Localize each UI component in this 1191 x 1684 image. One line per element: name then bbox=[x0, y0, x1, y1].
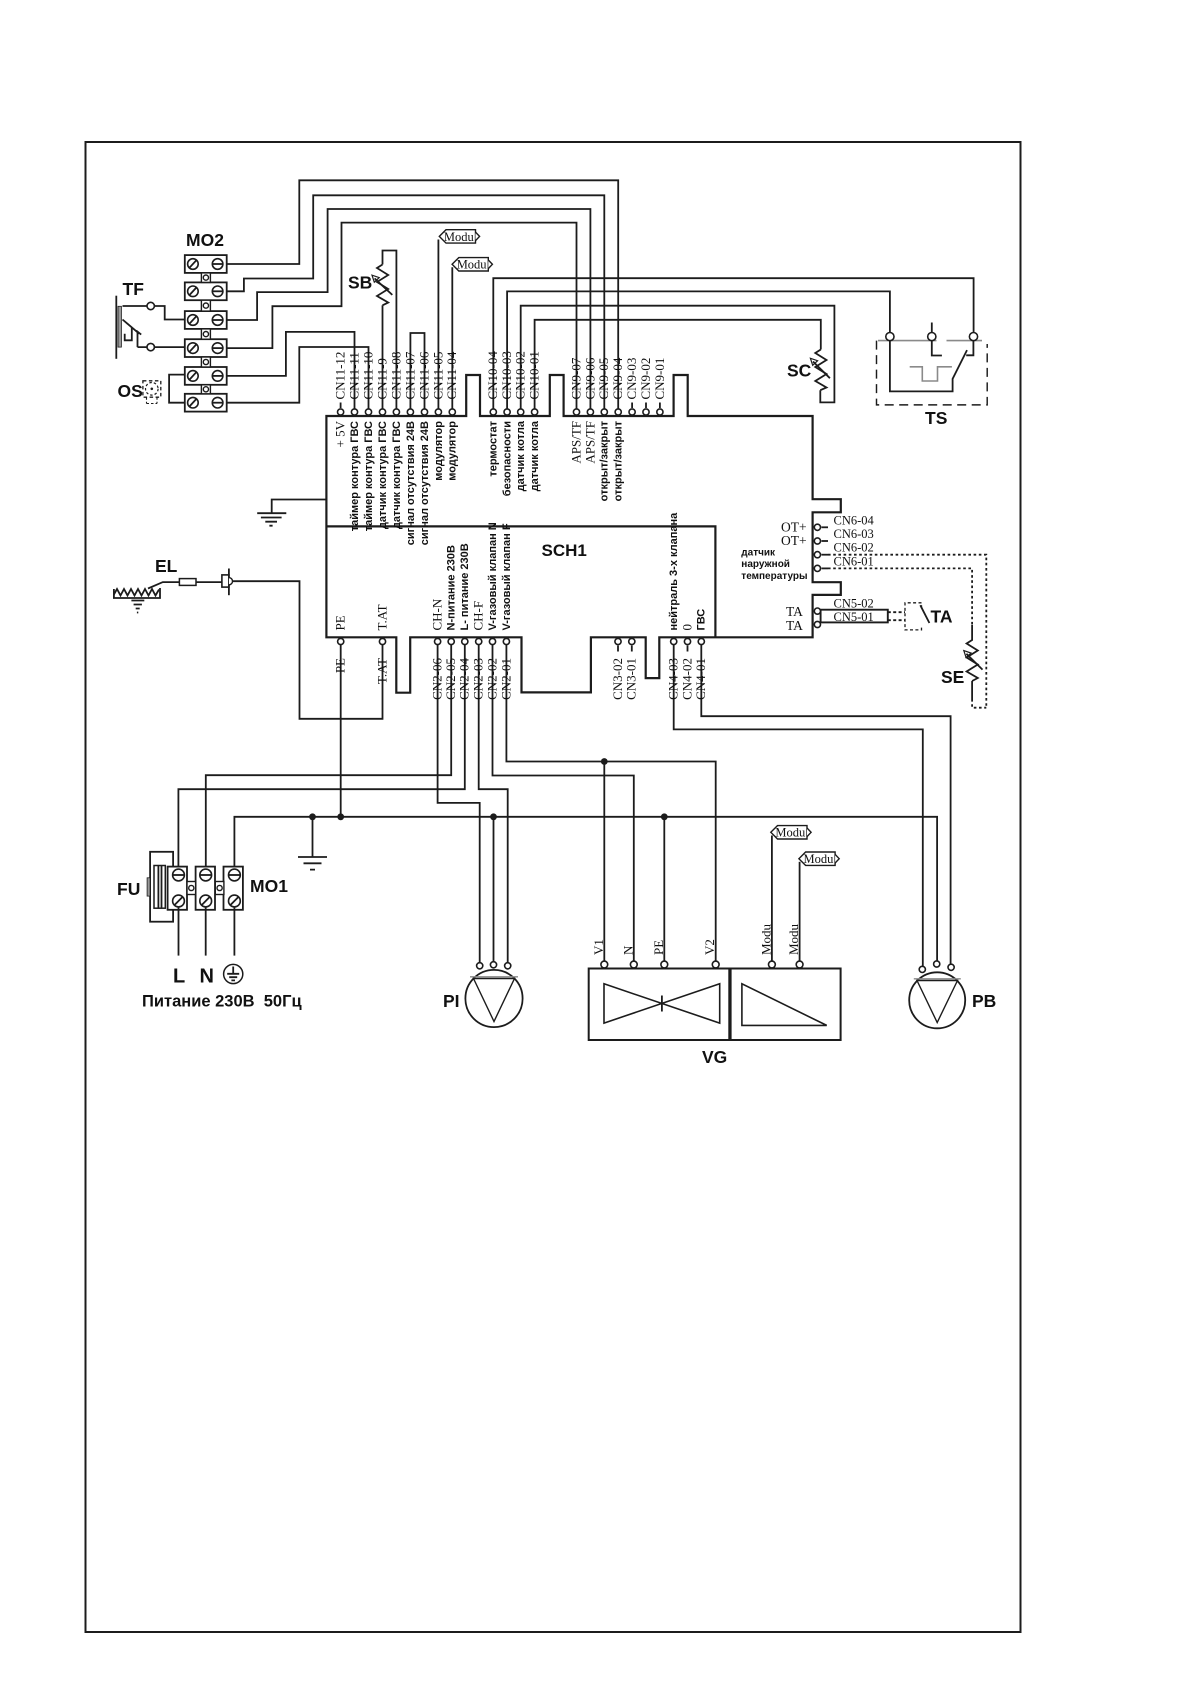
link MO1 1-2 bbox=[187, 882, 196, 895]
wire PE net (MO1 to PB) bbox=[234, 817, 937, 961]
pin CN3-01 (bottom) bbox=[629, 638, 635, 644]
svg-text:PE: PE bbox=[651, 940, 666, 955]
pin CN11-10 bbox=[365, 409, 371, 415]
wire L (CN2-04 to FU) bbox=[178, 645, 464, 869]
svg-text:CN3-01: CN3-01 bbox=[624, 658, 639, 700]
svg-text:TF: TF bbox=[123, 279, 145, 299]
svg-text:APS/TF: APS/TF bbox=[582, 421, 597, 464]
border frame (page) bbox=[86, 142, 1021, 1632]
svg-text:наружной: наружной bbox=[741, 559, 790, 570]
flag Modu 4 bbox=[799, 852, 835, 865]
pin CN6-01 bbox=[814, 565, 820, 571]
wire V-valve F (CN2-01 to VG V1/V2) bbox=[506, 645, 715, 963]
svg-text:Modu: Modu bbox=[758, 923, 773, 955]
svg-text:TS: TS bbox=[925, 408, 947, 428]
svg-text:PE: PE bbox=[333, 658, 348, 673]
svg-text:MO2: MO2 bbox=[186, 230, 224, 250]
svg-text:CN5-02: CN5-02 bbox=[834, 597, 874, 611]
wire PE to VG PE bbox=[663, 817, 665, 963]
wire VG V1 branch bbox=[603, 762, 605, 963]
svg-text:CN11-12: CN11-12 bbox=[333, 352, 348, 400]
terminal MO1-1 bbox=[168, 867, 187, 910]
pin CN2-05 (bottom) bbox=[448, 638, 454, 644]
pin CN10-04 bbox=[490, 409, 496, 415]
potentiometer SE arrow bbox=[966, 654, 982, 670]
svg-text:датчик котла: датчик котла bbox=[529, 420, 541, 491]
pin CN11-11 bbox=[351, 409, 357, 415]
svg-text:N: N bbox=[200, 966, 214, 988]
svg-text:CN2-03: CN2-03 bbox=[471, 658, 486, 700]
wire CN6-02 dotted to SE bbox=[828, 555, 986, 708]
wire CH-F (CN2-03 to PI right) bbox=[479, 645, 508, 963]
wire MO2-1 to CN9-04 bbox=[227, 180, 619, 409]
pin CN11-12 bbox=[340, 403, 342, 409]
pin CN4-02 (bottom) bbox=[684, 638, 690, 644]
svg-text:открыт/закрыт: открыт/закрыт bbox=[613, 420, 625, 501]
wire MO1-3 down (PE) bbox=[233, 907, 235, 956]
pin CN5-01 (TA) bbox=[814, 621, 820, 627]
contact TS middle bbox=[928, 333, 936, 341]
terminal MO2-6 bbox=[185, 394, 227, 412]
svg-text:FU: FU bbox=[117, 879, 140, 899]
wire CN4-01 to PB right bbox=[701, 645, 950, 964]
svg-text:TA: TA bbox=[931, 607, 953, 627]
board SCH1 outline bbox=[326, 375, 840, 693]
svg-text:TA: TA bbox=[786, 618, 803, 633]
svg-text:CN11-04: CN11-04 bbox=[444, 351, 459, 399]
svg-text:CN11-10: CN11-10 bbox=[360, 352, 375, 400]
svg-text:CN5-01: CN5-01 bbox=[834, 610, 874, 624]
svg-text:Питание 230В 50Гц: Питание 230В 50Гц bbox=[142, 993, 302, 1011]
valve VG left box bbox=[589, 969, 730, 1041]
svg-text:CN6-02: CN6-02 bbox=[834, 541, 874, 555]
svg-text:CH-F: CH-F bbox=[471, 601, 486, 631]
pin CN9-02 bbox=[645, 403, 647, 409]
contact TF lower bbox=[147, 343, 154, 350]
wire MO1-1 down (L) bbox=[178, 907, 180, 956]
node V1 junction bbox=[601, 758, 608, 765]
pin CN11-04 bbox=[449, 409, 455, 415]
svg-text:CH-N: CH-N bbox=[430, 598, 445, 630]
svg-text:SCH1: SCH1 bbox=[542, 541, 587, 560]
flag Modu 2 (CN11-04) bbox=[452, 258, 488, 271]
ground (EL plate) bbox=[131, 601, 144, 613]
switch TS enclosure (dashed) bbox=[878, 340, 982, 342]
wire EL to T.AT pin bbox=[233, 581, 383, 719]
fuse FU bbox=[150, 852, 173, 922]
svg-text:VG: VG bbox=[702, 1047, 727, 1067]
svg-text:Modu: Modu bbox=[457, 258, 488, 272]
node PE-board junction bbox=[337, 813, 344, 820]
svg-text:V-газовый клапан F: V-газовый клапан F bbox=[501, 523, 513, 630]
wire Modu flag 1 to CN11-05 bbox=[437, 240, 439, 410]
ground (mains PE) bbox=[298, 857, 327, 870]
svg-text:SB: SB bbox=[348, 273, 372, 293]
svg-text:T.AT: T.AT bbox=[374, 658, 389, 684]
wire CN10-02 to SC bottom bbox=[521, 306, 835, 409]
pin CN9-04 bbox=[615, 409, 621, 415]
electrode EL plate bbox=[114, 588, 160, 598]
wire PE to PI middle bbox=[493, 817, 495, 963]
potentiometer SE zigzag bbox=[967, 625, 978, 699]
svg-text:CN4-02: CN4-02 bbox=[679, 658, 694, 700]
node PE-ground junction bbox=[309, 813, 316, 820]
terminal MO2-2 bbox=[185, 282, 227, 300]
svg-text:OS: OS bbox=[118, 381, 143, 401]
terminal MO2-4 bbox=[185, 339, 227, 357]
pump PI bbox=[465, 970, 522, 1027]
wire SE bottom dotted bbox=[972, 699, 986, 708]
pin VG Modu B bbox=[796, 961, 803, 968]
svg-text:+ 5V: + 5V bbox=[333, 420, 348, 447]
svg-text:CN10-04: CN10-04 bbox=[485, 351, 500, 400]
svg-text:T.AT: T.AT bbox=[375, 604, 390, 630]
pin CN3-02 (bottom) bbox=[615, 638, 621, 644]
pin CN2-06 (bottom) bbox=[435, 638, 441, 644]
potentiometer SB zigzag bbox=[377, 265, 388, 306]
svg-text:CN11-07: CN11-07 bbox=[402, 351, 417, 399]
pin VG PE bbox=[661, 961, 668, 968]
pin VG Modu A bbox=[769, 961, 776, 968]
flag Modu 3 bbox=[771, 826, 807, 839]
svg-text:CN9-01: CN9-01 bbox=[652, 358, 667, 400]
svg-text:CN9-03: CN9-03 bbox=[624, 358, 639, 400]
svg-text:CN9-04: CN9-04 bbox=[610, 357, 625, 399]
terminal MO2-5 bbox=[185, 367, 227, 385]
pin CN2-03 (bottom) bbox=[476, 638, 482, 644]
svg-text:открыт/закрыт: открыт/закрыт bbox=[599, 420, 611, 501]
wire V-valve N (CN2-02 to VG N) bbox=[493, 645, 634, 963]
terminal MO1-3 bbox=[224, 867, 243, 910]
pin CN9-07 bbox=[573, 409, 579, 415]
pin CN2-01 (bottom) bbox=[503, 638, 509, 644]
svg-text:CN6-01: CN6-01 bbox=[834, 554, 874, 568]
svg-text:PE: PE bbox=[333, 615, 348, 630]
svg-text:CN11-05: CN11-05 bbox=[430, 352, 445, 400]
svg-text:SE: SE bbox=[941, 667, 964, 687]
svg-text:сигнал отсутствия 24В: сигнал отсутствия 24В bbox=[419, 421, 431, 545]
terminal MO2-3 bbox=[185, 311, 227, 329]
pump PB bbox=[909, 972, 965, 1028]
wire CN4-03 to PB left bbox=[674, 645, 923, 966]
svg-text:Modu: Modu bbox=[786, 923, 801, 955]
link MO2 3-4 bbox=[201, 329, 210, 339]
suppressor (EL inline resistor) bbox=[179, 579, 196, 586]
link MO1 2-3 bbox=[215, 882, 224, 895]
pin VG V2 bbox=[712, 961, 719, 968]
svg-text:CN6-03: CN6-03 bbox=[834, 527, 874, 541]
svg-text:CN10-02: CN10-02 bbox=[513, 351, 528, 399]
wire MO2-5 to CN11-11 bbox=[227, 332, 355, 409]
svg-text:CN2-01: CN2-01 bbox=[498, 658, 513, 700]
svg-text:CN11-08: CN11-08 bbox=[388, 352, 403, 400]
svg-text:Modu: Modu bbox=[804, 852, 835, 866]
wire CN10-01 to SC top bbox=[535, 320, 821, 409]
wire Modu flag 4 to VG bbox=[799, 862, 801, 962]
symbol earth (in circle) bbox=[224, 964, 243, 983]
wire EL plate to suppressor bbox=[148, 582, 179, 588]
contact TS left bbox=[886, 333, 894, 341]
wire SB bottom to CN11-9 bbox=[382, 305, 384, 409]
switch TS internals bbox=[890, 341, 967, 392]
svg-text:CN10-01: CN10-01 bbox=[527, 351, 542, 399]
pin CN9-05 bbox=[601, 409, 607, 415]
pin CN10-03 bbox=[504, 409, 510, 415]
svg-text:CN2-02: CN2-02 bbox=[484, 658, 499, 700]
svg-text:MO1: MO1 bbox=[250, 876, 288, 896]
wire MO2-4 to CN9-07 bbox=[227, 223, 577, 409]
svg-text:датчик контура ГВС: датчик контура ГВС bbox=[391, 421, 403, 529]
pin CN11-9 bbox=[379, 409, 385, 415]
pin PB left bbox=[919, 966, 925, 972]
svg-text:CN9-05: CN9-05 bbox=[596, 358, 611, 400]
terminal MO1-2 bbox=[196, 867, 215, 910]
wire CN10-04 to TS right contact bbox=[493, 278, 973, 409]
wire Modu flag 3 to VG bbox=[771, 836, 773, 963]
pin CN9-06 bbox=[587, 409, 593, 415]
wire suppressor to plug cap bbox=[196, 581, 222, 583]
potentiometer SC zigzag bbox=[815, 350, 826, 391]
node PE-VG junction bbox=[661, 813, 668, 820]
wire CN6-01 dotted to SE bbox=[828, 568, 972, 625]
svg-text:CN9-02: CN9-02 bbox=[638, 358, 653, 400]
svg-text:сигнал отсутствия 24В: сигнал отсутствия 24В bbox=[405, 421, 417, 545]
svg-text:Modu: Modu bbox=[775, 826, 806, 840]
pin VG N bbox=[630, 961, 637, 968]
wire bar to TA switch (dashed) bbox=[888, 612, 905, 620]
wire jumper MO2-5 to MO2-6 (OS loop) bbox=[169, 375, 185, 403]
wire MO1-2 down (N) bbox=[205, 907, 207, 956]
plug cap (EL connector) bbox=[222, 575, 229, 587]
link MO2 5-6 bbox=[201, 385, 210, 394]
pin CN5-02 (TA) bbox=[814, 608, 820, 614]
svg-text:OT+: OT+ bbox=[781, 533, 807, 548]
pin PE (bottom) bbox=[338, 638, 344, 644]
svg-text:SC: SC bbox=[787, 361, 812, 381]
potentiometer SC arrow bbox=[813, 362, 830, 379]
ground (board upper-left) bbox=[257, 500, 326, 526]
pin PB right bbox=[948, 964, 954, 970]
wire MO2-2 to CN9-05 bbox=[227, 195, 605, 409]
board SCH1 internal divider bbox=[326, 526, 715, 637]
pin CN10-02 bbox=[518, 409, 524, 415]
svg-text:Modu: Modu bbox=[444, 230, 475, 244]
wire jumper CN11-07 to CN11-06 bbox=[410, 333, 424, 409]
svg-text:0: 0 bbox=[680, 624, 695, 631]
pin CN6-02 bbox=[814, 552, 820, 558]
wire TF lower contact to MO2-4 bbox=[138, 346, 185, 348]
link MO2 4-5 bbox=[201, 357, 210, 367]
svg-text:датчик котла: датчик котла bbox=[515, 420, 527, 491]
svg-text:N: N bbox=[620, 945, 635, 955]
svg-text:CN11-06: CN11-06 bbox=[416, 351, 431, 399]
pin CN2-04 (bottom) bbox=[462, 638, 468, 644]
svg-text:CN9-07: CN9-07 bbox=[568, 357, 583, 399]
wire CH-N (CN2-06 to PI left) bbox=[438, 645, 480, 963]
pin PB middle bbox=[934, 961, 940, 967]
link MO2 2-3 bbox=[201, 300, 210, 311]
link MO2 1-2 bbox=[201, 273, 210, 283]
valve VG right box bbox=[731, 969, 841, 1041]
svg-text:APS/TF: APS/TF bbox=[569, 421, 584, 464]
pin PI PE bbox=[490, 962, 496, 968]
pin CN11-08 bbox=[393, 409, 399, 415]
svg-text:нейтраль 3-х клапана: нейтраль 3-х клапана bbox=[668, 512, 680, 631]
pin CN10-01 bbox=[532, 409, 538, 415]
wire Modu flag 2 to CN11-04 bbox=[451, 267, 453, 409]
svg-text:термостат: термостат bbox=[488, 420, 500, 476]
svg-text:CN2-04: CN2-04 bbox=[457, 658, 472, 700]
pin VG V1 bbox=[601, 961, 608, 968]
svg-text:CN11-11: CN11-11 bbox=[346, 352, 361, 399]
pin CN9-01 bbox=[659, 403, 661, 409]
svg-text:CN4-01: CN4-01 bbox=[693, 658, 708, 700]
terminal MO2-1 bbox=[185, 255, 227, 273]
svg-text:таймер контура ГВС: таймер контура ГВС bbox=[349, 421, 361, 531]
svg-text:CN11-9: CN11-9 bbox=[374, 358, 389, 399]
sensor OS (dashed) bbox=[143, 381, 161, 397]
pin T.AT (bottom) bbox=[379, 638, 385, 644]
svg-text:температуры: температуры bbox=[741, 571, 807, 582]
svg-text:ГВС: ГВС bbox=[696, 609, 708, 631]
pin CN4-03 (bottom) bbox=[671, 638, 677, 644]
svg-text:V-газовый клапан N: V-газовый клапан N bbox=[487, 522, 499, 630]
wire TF upper contact to MO2-3 bbox=[123, 306, 185, 320]
wire SB top loop to CN11-08 bbox=[383, 251, 397, 410]
svg-text:L- питание 230В: L- питание 230В bbox=[459, 543, 471, 630]
jumper bar CN5-02/CN5-01 bbox=[821, 610, 888, 623]
svg-text:V1: V1 bbox=[591, 939, 606, 955]
wire CN10-03 to TS left contact bbox=[507, 291, 890, 409]
pin PI N bbox=[477, 963, 483, 969]
wire PE to ground bbox=[312, 817, 314, 857]
svg-text:модулятор: модулятор bbox=[433, 421, 445, 481]
svg-text:CN4-03: CN4-03 bbox=[666, 658, 681, 700]
svg-text:L: L bbox=[173, 966, 185, 988]
node PE-PI junction bbox=[490, 813, 497, 820]
pin CN2-02 (bottom) bbox=[489, 638, 495, 644]
wire MO2-3 to CN9-06 bbox=[227, 209, 591, 409]
wire PE pin to PE net bbox=[340, 645, 342, 817]
pin CN4-01 (bottom) bbox=[698, 638, 704, 644]
contact TS right bbox=[969, 333, 977, 341]
svg-text:модулятор: модулятор bbox=[447, 421, 459, 481]
svg-text:EL: EL bbox=[155, 556, 178, 576]
svg-text:CN3-02: CN3-02 bbox=[610, 658, 625, 700]
pin CN6-04 bbox=[814, 524, 820, 530]
flag Modu 1 (CN11-05) bbox=[439, 230, 475, 243]
pin CN11-07 bbox=[407, 409, 413, 415]
pin CN11-06 bbox=[421, 409, 427, 415]
svg-text:PB: PB bbox=[972, 991, 996, 1011]
svg-text:датчик контура ГВС: датчик контура ГВС bbox=[377, 421, 389, 529]
switch TA (room thermostat, dashed) bbox=[905, 603, 922, 630]
potentiometer SB arrow bbox=[375, 278, 393, 295]
pin CN9-03 bbox=[631, 403, 633, 409]
svg-text:датчик: датчик bbox=[741, 548, 776, 559]
svg-text:безопасности: безопасности bbox=[502, 421, 514, 496]
svg-text:CN9-06: CN9-06 bbox=[582, 357, 597, 399]
svg-text:PI: PI bbox=[443, 991, 460, 1011]
pin CN6-03 bbox=[814, 538, 820, 544]
svg-text:CN6-04: CN6-04 bbox=[834, 513, 875, 527]
svg-text:V2: V2 bbox=[702, 939, 717, 955]
thermostat TF bbox=[115, 296, 117, 359]
wire N (CN2-05 to MO1-N) bbox=[206, 645, 451, 869]
svg-text:N-питание 230В: N-питание 230В bbox=[446, 545, 458, 630]
pin PI F bbox=[505, 963, 511, 969]
wire MO2-6 to CN11-10 bbox=[227, 347, 369, 409]
contact TF upper bbox=[147, 302, 154, 309]
pin CN11-05 bbox=[435, 409, 441, 415]
svg-text:таймер контура ГВС: таймер контура ГВС bbox=[363, 421, 375, 531]
